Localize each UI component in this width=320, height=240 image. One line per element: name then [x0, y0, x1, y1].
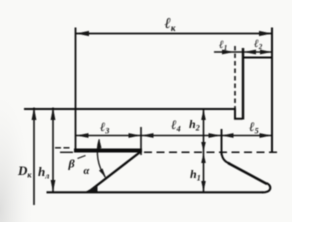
svg-text:ℓ4: ℓ4 [171, 117, 181, 134]
pennant concave curve [222, 153, 231, 164]
arrow l5 right [260, 133, 272, 138]
blade leading edge slant [89, 151, 142, 192]
arrow l2 right [260, 50, 272, 55]
arrow l2 left (points left to slot wall) [244, 50, 257, 55]
slant foot flare [85, 186, 98, 193]
arrow h_l up [51, 108, 56, 121]
arrow l4 left [142, 133, 154, 138]
svg-text:ℓ1: ℓ1 [219, 39, 227, 52]
svg-text:ℓк: ℓк [165, 16, 176, 33]
left extension / body edge [75, 28, 77, 152]
slot left wall [242, 48, 244, 120]
blade section (pennant) left edge [221, 129, 223, 155]
dash-dot centerline right [144, 151, 280, 153]
pennant nose [262, 183, 270, 192]
slot top ledge [242, 57, 272, 59]
svg-text:h2: h2 [189, 117, 200, 133]
scan smudge bottom-left [0, 100, 34, 222]
svg-text:hл: hл [38, 164, 49, 181]
h_l dimension line [52, 108, 54, 192]
bottom base line [47, 191, 264, 193]
dimension line l1 l2 [214, 51, 271, 53]
dash-dot centerline left dashes [55, 147, 70, 149]
arrow l1 (points right to dashed line) [222, 50, 234, 55]
top body line [24, 108, 236, 110]
svg-text:ℓ2: ℓ2 [254, 38, 263, 51]
arrow h_l down [51, 180, 56, 192]
h2 arrow down [201, 142, 206, 151]
D_k dimension line [33, 108, 35, 206]
svg-text:ℓ3: ℓ3 [100, 120, 109, 136]
step down at x=235 [235, 109, 243, 119]
pennant slant [228, 163, 267, 184]
h1 h2 dimension vertical [203, 110, 205, 192]
dimension line l_k [76, 33, 272, 35]
svg-text:ℓ5: ℓ5 [249, 119, 259, 136]
middle dimension line l3 l4 l5 [76, 135, 272, 137]
arrow l5 left [222, 133, 234, 138]
svg-text:β: β [68, 157, 76, 171]
arc arrow top [98, 139, 102, 149]
tick between l3 l4 [140, 127, 142, 155]
arrow right of l_k [259, 31, 272, 36]
arrow D_k up [32, 108, 37, 121]
arrow left of l_k [76, 31, 89, 36]
h2 arrow up [201, 110, 206, 121]
arc arrow bottom [99, 169, 106, 178]
h1 arrow up [201, 153, 206, 163]
dashed vertical line at slot [234, 46, 236, 118]
right extension / body edge [271, 28, 273, 152]
thick blade top line [74, 149, 142, 153]
arrow l3 right [129, 133, 141, 138]
svg-text:h1: h1 [190, 167, 201, 183]
beta leader dash [78, 156, 86, 159]
h1 arrow down [201, 181, 206, 191]
svg-text:α: α [84, 166, 90, 177]
arrow l4 right [209, 133, 221, 138]
alpha angle arc [97, 139, 105, 177]
arrow l3 left [77, 133, 89, 138]
